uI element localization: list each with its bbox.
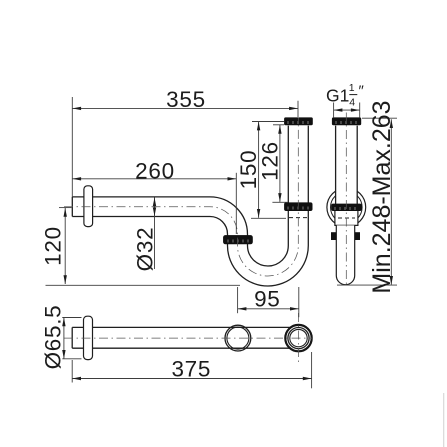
svg-text:375: 375 [171, 356, 211, 381]
svg-text:G1: G1 [326, 86, 349, 106]
svg-text:1: 1 [349, 82, 355, 94]
svg-text:95: 95 [254, 287, 280, 312]
svg-text:″: ″ [359, 83, 365, 100]
svg-text:Ø65.5: Ø65.5 [41, 305, 66, 370]
svg-text:4: 4 [349, 97, 355, 109]
svg-text:Ø32: Ø32 [133, 227, 158, 272]
svg-text:260: 260 [135, 158, 175, 183]
svg-text:120: 120 [40, 226, 65, 266]
svg-text:Min.248-Max.263: Min.248-Max.263 [368, 100, 396, 293]
svg-text:355: 355 [166, 87, 206, 112]
svg-text:126: 126 [257, 141, 282, 181]
